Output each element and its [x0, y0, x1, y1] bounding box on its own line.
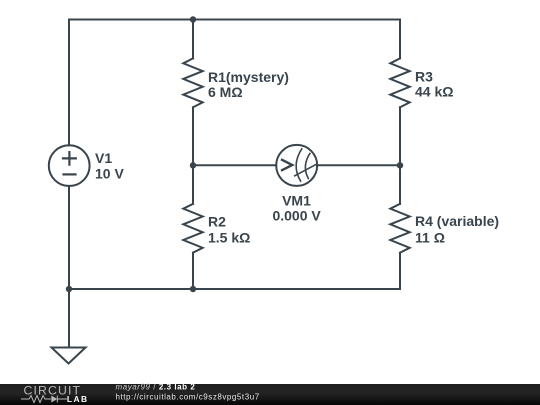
svg-text:0.000 V: 0.000 V: [272, 208, 321, 224]
svg-text:http://circuitlab.com/c9sz8vpg: http://circuitlab.com/c9sz8vpg5t3u7: [116, 393, 260, 402]
svg-text:6 MΩ: 6 MΩ: [208, 84, 243, 100]
svg-text:mayar99 / 2.3 lab 2: mayar99 / 2.3 lab 2: [116, 383, 196, 392]
svg-text:LAB: LAB: [67, 394, 89, 404]
svg-text:R3: R3: [415, 69, 433, 85]
svg-text:R1(mystery): R1(mystery): [208, 69, 289, 85]
svg-text:V1: V1: [95, 150, 112, 166]
svg-text:R4 (variable): R4 (variable): [415, 213, 499, 229]
svg-text:10 V: 10 V: [95, 166, 124, 182]
svg-text:1.5 kΩ: 1.5 kΩ: [208, 229, 250, 245]
svg-text:11 Ω: 11 Ω: [415, 229, 445, 245]
svg-text:R2: R2: [208, 213, 226, 229]
svg-text:VM1: VM1: [282, 193, 311, 209]
svg-text:44 kΩ: 44 kΩ: [415, 84, 453, 100]
